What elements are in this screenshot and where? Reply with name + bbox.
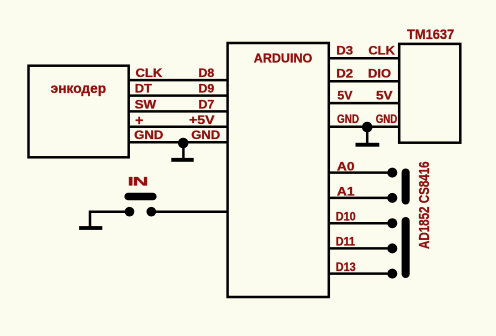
node dot D11 [387,243,397,253]
pin label A1 [337,184,355,198]
svg-text:GND: GND [134,128,163,142]
node dot D13 [387,269,397,279]
wire button to ground corner [90,210,130,213]
svg-text:CLK: CLK [368,44,395,58]
svg-text:D8: D8 [198,66,214,80]
svg-text:GND: GND [191,129,220,143]
node dot A0 [387,168,397,178]
TM1637 label [407,27,454,43]
pin label D11 [336,236,356,249]
pin label GND (Arduino right) [337,113,359,126]
svg-text:SW: SW [135,97,157,111]
wire ground drop [89,211,92,228]
Arduino label [254,51,313,65]
svg-text:5V: 5V [337,88,353,102]
wire Arduino D13 [329,272,393,275]
svg-text:A1: A1 [337,184,355,198]
svg-text:CLK: CLK [136,66,164,80]
node dot A1 [387,193,397,203]
svg-text:DIO: DIO [368,67,391,81]
pin label DIO [368,67,391,81]
push button SW1 actuator bar [124,193,156,200]
pin label D8 [198,66,214,80]
svg-text:D10: D10 [336,211,356,224]
pin label D9 [198,82,214,96]
ground stub (TM1637 GND) [366,127,369,143]
pin label CLK [136,66,164,80]
ground bar (button) [79,226,102,230]
wire Arduino D3 to TM1637 CLK [329,57,399,60]
wire encoder + to Arduino +5V [129,126,228,129]
svg-text:A0: A0 [337,159,355,173]
pin label D3 [336,43,353,57]
connector bar AD1852 [402,217,410,278]
pin label 5V (TM1637) [376,88,393,102]
pin label GND (TM1637) [376,113,398,126]
svg-text:D7: D7 [198,97,214,111]
wire encoder SW to Arduino D7 [129,110,228,113]
pin label +5V [189,113,215,127]
pin label A0 [337,159,355,173]
svg-text:D9: D9 [198,82,214,96]
svg-text:энкодер: энкодер [51,80,106,96]
wire Arduino A0 [329,171,393,174]
pin label D7 [198,97,214,111]
svg-text:DT: DT [135,82,153,96]
encoder box U1 [29,66,129,158]
svg-text:5V: 5V [376,88,393,102]
pin label GND (Arduino left) [191,129,220,143]
encoder label [51,80,106,96]
pin label 5V (Arduino) [337,88,353,102]
push button contact dot left [125,207,135,217]
svg-text:IN: IN [128,175,148,189]
wire encoder CLK to Arduino D8 [129,79,228,82]
svg-text:TM1637: TM1637 [407,27,454,43]
ground stub (encoder GND) [182,143,185,159]
wire Arduino D2 to TM1637 DIO [329,80,399,83]
pin label D2 [336,66,353,80]
ground bar (encoder GND) [171,158,193,162]
pin label + [135,112,143,128]
svg-text:AD1852 CS8416: AD1852 CS8416 [416,161,433,249]
wire Arduino D11 [329,247,393,250]
wire encoder GND to Arduino GND [129,141,228,144]
wire Arduino A1 [329,197,393,200]
junction dot on encoder GND wire [178,138,189,149]
svg-text:ARDUINO: ARDUINO [254,51,313,65]
wire Arduino GND to TM1637 GND [329,126,399,129]
pin label DT [135,82,153,96]
svg-text:GND: GND [376,113,398,126]
Arduino box U2 [228,43,329,297]
svg-text:D2: D2 [336,66,353,80]
pin label GND (encoder) [134,128,163,142]
svg-text:+5V: +5V [189,113,215,127]
pin label D10 [336,211,356,224]
label AD1852 CS8416 (rotated) [416,161,433,249]
pin label D13 [336,261,356,274]
svg-text:GND: GND [337,113,359,126]
pin label CLK (TM1637) [368,44,395,58]
svg-text:+: + [135,112,143,128]
svg-text:D3: D3 [336,43,353,57]
svg-text:D11: D11 [336,236,356,249]
svg-text:D13: D13 [336,261,356,274]
label IN [128,175,148,189]
ground bar (TM1637 GND) [356,143,380,147]
TM1637 box U3 [399,44,460,143]
node dot D10 [387,218,397,228]
wire encoder DT to Arduino D9 [129,94,228,97]
junction dot on TM1637 GND wire [362,122,373,133]
push button contact dot right [147,207,157,217]
pin label SW [135,97,157,111]
wire button to Arduino [151,210,227,213]
connector bar CS8416 [402,169,410,205]
wire Arduino 5V to TM1637 5V [329,102,399,105]
wire Arduino D10 [329,222,393,225]
